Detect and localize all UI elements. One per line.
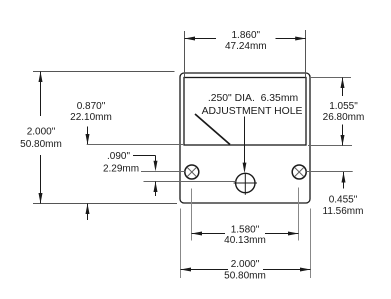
leader arrow to adjustment hole [244,117,246,167]
left dimension 2.000" / 50.80mm [40,72,42,117]
svg-text:2.29mm: 2.29mm [103,164,139,175]
panel outline (2.000 x 2.000 bezel) [180,73,310,203]
svg-text:ADJUSTMENT HOLE: ADJUSTMENT HOLE [202,106,303,117]
0.870 up arrow [87,204,89,221]
meter needle [195,114,230,145]
svg-text:1.580": 1.580" [231,225,260,236]
bottom dimension 1.580" / 40.13mm [192,233,226,235]
svg-text:2.000": 2.000" [231,259,260,270]
0.455" / 11.56mm dimension [343,172,345,189]
right dimension 1.055" / 26.80mm [342,78,344,97]
.090 leader to down arrow [133,155,156,157]
bottom dimension 2.000" / 50.80mm [181,269,229,271]
svg-text:11.56mm: 11.56mm [323,206,364,217]
svg-text:1.860": 1.860" [232,30,261,41]
0.870 down arrow [87,127,89,145]
adjustment hole crosshair [234,182,257,184]
adjustment hole [236,173,255,192]
meter window (1.860 x 1.055) [184,78,306,146]
mount-hole centerline extension (right) [306,171,352,173]
top dimension 1.860" / 47.24mm [185,38,217,40]
bottom 2.000 extension lines (from panel corners) [180,209,182,279]
right mounting hole [292,165,306,179]
svg-text:40.13mm: 40.13mm [224,235,266,246]
svg-text:.250" DIA. 6.35mm: .250" DIA. 6.35mm [208,93,298,104]
.090 upper reference line (mount hole centerline) [141,171,185,173]
left dimension extension lines [33,71,175,73]
svg-text:50.80mm: 50.80mm [224,271,266,282]
svg-text:26.80mm: 26.80mm [323,112,365,123]
svg-text:22.10mm: 22.10mm [70,112,112,123]
svg-text:1.055": 1.055" [329,101,358,112]
.090 up arrow [155,182,157,197]
svg-text:.090": .090" [107,151,130,162]
window-bottom extension line (left and right of panel) [87,144,184,146]
svg-text:50.80mm: 50.80mm [20,139,62,150]
top dimension extension lines [184,31,186,78]
bottom 1.580 extension lines (from mount hole centers) [191,189,193,241]
.090 lower reference line (adjustment hole centerline) [144,181,236,183]
svg-text:0.870": 0.870" [77,101,106,112]
svg-text:0.455": 0.455" [329,195,358,206]
right dimension extension lines [311,77,351,79]
svg-text:2.000": 2.000" [27,127,56,138]
svg-text:47.24mm: 47.24mm [225,41,267,52]
left mounting hole [185,165,199,179]
